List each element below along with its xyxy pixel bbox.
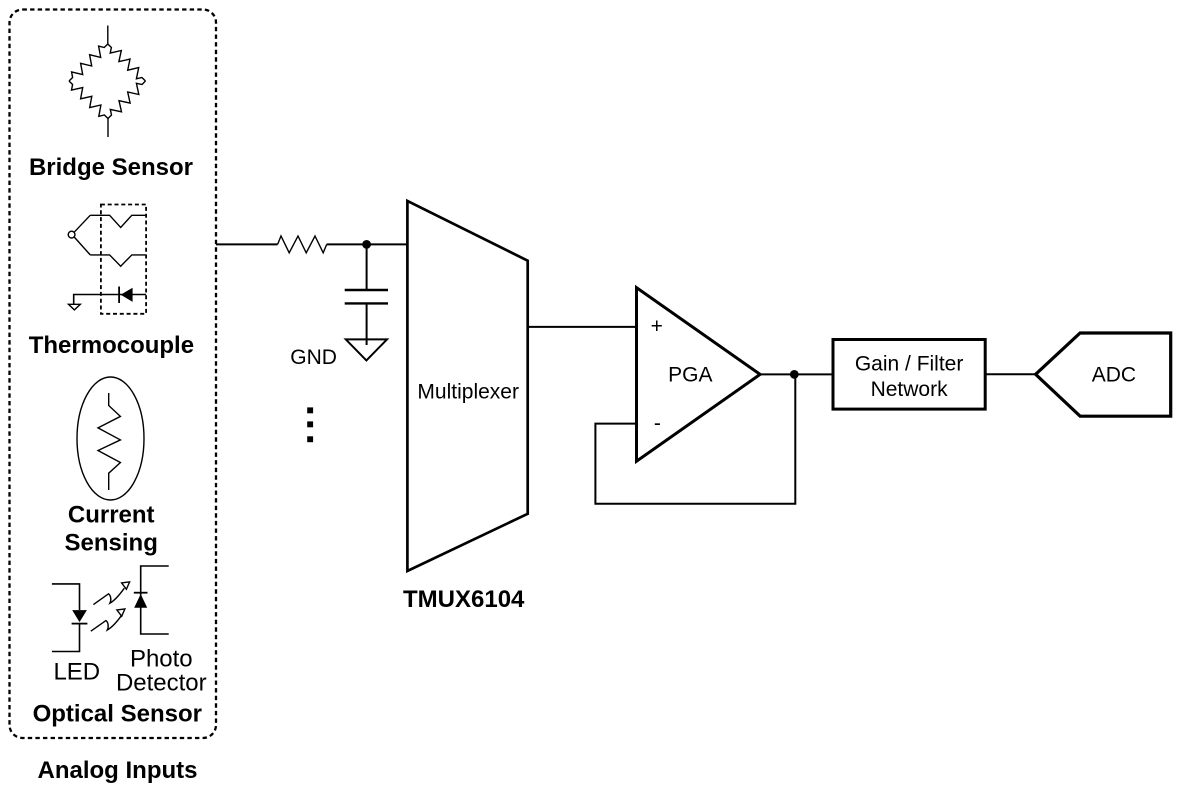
svg-text:+: +: [651, 315, 663, 338]
ground GND: [346, 339, 387, 360]
wire from analog inputs to resistor: [216, 243, 278, 245]
light arrow upper: [93, 582, 129, 605]
svg-text:Gain / Filter: Gain / Filter: [855, 353, 964, 376]
svg-text:Current: Current: [68, 501, 155, 528]
svg-text:Network: Network: [871, 378, 949, 401]
wire capacitor to ground: [366, 303, 368, 345]
svg-text:PGA: PGA: [668, 363, 712, 386]
svg-text:Multiplexer: Multiplexer: [417, 381, 519, 404]
svg-text:Optical Sensor: Optical Sensor: [33, 700, 202, 727]
svg-text:GND: GND: [290, 346, 337, 369]
feedback wire: [595, 374, 795, 503]
svg-text:LED: LED: [53, 659, 100, 686]
wire gain/filter to ADC: [985, 373, 1035, 375]
vertical ellipsis dots: [307, 407, 313, 442]
output node: [790, 370, 799, 379]
wire resistor to multiplexer: [327, 243, 408, 245]
bridge sensor: [69, 26, 146, 138]
thermocouple: [68, 215, 146, 266]
current sense resistor: [98, 393, 120, 490]
wire PGA to gain/filter: [760, 373, 833, 375]
svg-text:Sensing: Sensing: [65, 529, 158, 556]
svg-text:-: -: [654, 412, 661, 435]
thermocouple cold-junction diode: [74, 287, 146, 305]
wire node to capacitor: [366, 244, 368, 290]
svg-text:Bridge Sensor: Bridge Sensor: [29, 154, 193, 181]
thermocouple ground: [69, 304, 81, 310]
capacitor: [345, 290, 388, 303]
svg-text:TMUX6104: TMUX6104: [403, 586, 525, 613]
ADC block: [1036, 333, 1171, 416]
light arrow lower: [91, 609, 125, 631]
photo detector diode: [134, 566, 169, 634]
gain/filter network box: [833, 340, 985, 410]
svg-text:Detector: Detector: [116, 670, 207, 697]
svg-text:Thermocouple: Thermocouple: [29, 332, 194, 359]
multiplexer U1 TMUX6104: [407, 201, 527, 571]
LED diode: [52, 584, 88, 652]
thermocouple isothermal dashed box: [101, 205, 146, 314]
wire multiplexer to PGA: [528, 326, 637, 328]
series resistor: [278, 236, 327, 253]
svg-text:Analog Inputs: Analog Inputs: [38, 757, 198, 784]
op-amp PGA: [637, 288, 761, 462]
analog inputs dashed container box: [10, 10, 217, 739]
current sensing loop: [77, 377, 144, 500]
svg-text:ADC: ADC: [1092, 364, 1136, 387]
junction node: [362, 240, 371, 249]
